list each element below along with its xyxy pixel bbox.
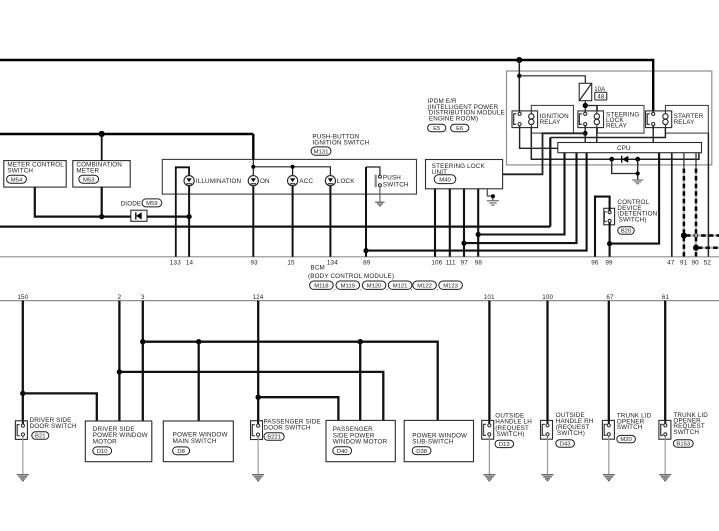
wire: diode to lamp line [147, 216, 189, 218]
ground (passenger door switch) [257, 440, 259, 475]
relay U2 steering lock relay symbol [578, 111, 639, 130]
wire: pin 124 to passenger door switch [257, 301, 259, 425]
svg-text:96: 96 [591, 259, 599, 266]
ground (CPU) [632, 180, 643, 184]
combination meter M53 box [73, 161, 130, 188]
svg-text:D43: D43 [560, 442, 572, 448]
wire: CPU feed to detention switch [610, 153, 660, 244]
svg-text:M20: M20 [620, 437, 632, 443]
connector M123 [439, 281, 463, 289]
outside handle LH request switch D13 [482, 413, 533, 448]
wire: interior bus riser [549, 138, 551, 227]
push-button ignition switch M131 box [162, 159, 416, 194]
lamp LOCK [325, 176, 355, 186]
wire: illumination lamp to pin 14 [188, 186, 190, 257]
junction pin 98 branch [476, 232, 481, 237]
wire: pin 61 to trunk lid request switch [664, 301, 666, 424]
wire: ignition relay contact to CPU [520, 126, 558, 149]
wire: pin 100 to outside handle RH [546, 301, 548, 424]
BCM pin labels top row [170, 259, 711, 266]
relay U3 starter relay symbol [646, 111, 704, 128]
power window main switch D8 box [163, 421, 233, 462]
junction pin 2 branch [117, 369, 122, 374]
wire: steering lock unit pin 106 [434, 189, 436, 257]
wire: steering lock unit pin 97 [463, 189, 465, 257]
trunk lid opener switch M20 [602, 413, 651, 444]
svg-text:B221: B221 [267, 435, 281, 441]
junction pin 124 branch [256, 395, 261, 400]
svg-text:METER: METER [76, 168, 99, 175]
push switch symbol [375, 175, 409, 189]
svg-text:,: , [437, 285, 439, 292]
svg-text:DOOR SWITCH: DOOR SWITCH [264, 425, 311, 432]
svg-text:124: 124 [253, 294, 264, 301]
wire: pin 67 to trunk lid opener switch [608, 301, 610, 424]
starter relay label box [665, 105, 708, 133]
svg-text:M40: M40 [439, 178, 451, 184]
outside handle RH request switch D43 [541, 412, 594, 448]
svg-text:SWITCH): SWITCH) [557, 430, 585, 437]
wire: meter feed bus [0, 133, 253, 135]
BCM module band (bottom edge) [0, 300, 719, 302]
svg-text:M119: M119 [341, 284, 355, 290]
svg-text:BCM: BCM [311, 265, 325, 272]
fuse 10A 48 [579, 83, 607, 100]
svg-text:93: 93 [251, 259, 259, 266]
ground (trunk lid request switch) [664, 439, 666, 475]
wire: combination meter down to diode line [101, 187, 103, 217]
svg-text:DOOR SWITCH: DOOR SWITCH [30, 423, 77, 430]
steering lock relay label box [597, 105, 644, 133]
wire: pin 124 branch to passenger motor [258, 397, 338, 420]
svg-text:M122: M122 [417, 284, 432, 290]
svg-text:47: 47 [667, 259, 675, 266]
steering lock unit M40 box [426, 160, 503, 189]
ground (steering lock unit) [487, 201, 499, 206]
wire: steering lock unit pin 98 [477, 189, 479, 257]
svg-text:SWITCH): SWITCH) [619, 217, 647, 224]
svg-text:134: 134 [327, 259, 338, 266]
wire: ACC lamp to pin 15 [292, 186, 294, 257]
IPDM label text [428, 98, 505, 123]
svg-text:SWITCH: SWITCH [383, 182, 409, 189]
driver side door switch B21 [15, 417, 77, 440]
lamp ON [248, 176, 270, 186]
wire: detention switch to pin 99 [609, 222, 611, 257]
svg-text:D40: D40 [337, 449, 349, 455]
wire: drop to passenger motor [359, 342, 361, 421]
wire: branch to driver window motor [23, 393, 97, 421]
wire: pin 101 to outside handle LH [488, 301, 490, 424]
wire: steering relay coil to CPU [596, 128, 598, 143]
wire: M54 to diode [35, 187, 131, 217]
junction pin 91 branch [681, 233, 687, 239]
svg-text:(BODY CONTROL MODULE): (BODY CONTROL MODULE) [308, 273, 394, 280]
junction pin 3 branch [140, 339, 145, 344]
svg-text:D38: D38 [416, 449, 428, 455]
svg-text:SWITCH: SWITCH [617, 424, 643, 431]
wire: pin 98 branch to CPU [478, 153, 564, 235]
wire: pin 91 shielded branch right [684, 234, 719, 236]
lamp ACC [288, 176, 314, 186]
svg-text:,: , [334, 285, 336, 292]
svg-text:99: 99 [605, 259, 613, 266]
junction node fuse branch [517, 74, 521, 78]
wire: illumination lamp to pin 133 [176, 167, 189, 256]
junction diode cathode [635, 157, 640, 162]
junction main switch drop [196, 339, 201, 344]
svg-text:M120: M120 [367, 284, 382, 290]
svg-text:48: 48 [597, 94, 604, 101]
ground (push switch) [375, 202, 384, 206]
wire: thick riser to ON lamp [252, 134, 254, 159]
wire: fuse output [584, 101, 586, 113]
svg-text:D13: D13 [499, 442, 511, 448]
wire: combination meter riser up [101, 134, 103, 161]
wire: branch to steering lock relay coil [585, 106, 597, 111]
passenger side door switch B221 [251, 419, 321, 441]
connector M118 [310, 281, 334, 289]
svg-text:150: 150 [17, 294, 28, 301]
junction node on power bus [516, 57, 522, 63]
wire: ignition relay coil to diode line [531, 128, 699, 160]
svg-text:ILLUMINATION: ILLUMINATION [196, 178, 242, 185]
junction inner bus ON [251, 165, 255, 169]
svg-text:133: 133 [170, 259, 181, 266]
ground (driver door switch) [22, 439, 24, 474]
junction combination meter [99, 131, 105, 137]
wire: push switch to ground [379, 187, 381, 202]
svg-text:MAIN SWITCH: MAIN SWITCH [173, 438, 217, 445]
BCM module band (top edge) [0, 256, 719, 258]
junction node fuse output [583, 103, 588, 108]
svg-text:B21: B21 [35, 434, 45, 440]
svg-text:M118: M118 [314, 284, 329, 290]
svg-text:ENGINE ROOM): ENGINE ROOM) [429, 116, 478, 123]
svg-text:101: 101 [484, 294, 495, 301]
svg-text:RELAY: RELAY [674, 119, 696, 126]
svg-text:WINDOW MOTOR: WINDOW MOTOR [333, 439, 388, 446]
ground (outside handle RH) [547, 439, 549, 475]
svg-text:LOCK: LOCK [337, 178, 355, 185]
driver side power window motor D10 box [85, 421, 152, 462]
wire: CPU to pin 47 [671, 153, 673, 257]
svg-text:ACC: ACC [299, 178, 313, 185]
svg-text:61: 61 [662, 294, 670, 301]
svg-text:90: 90 [692, 259, 700, 266]
connector M119 [336, 281, 360, 289]
svg-text:,: , [360, 285, 362, 292]
wire: pin 3 to driver window motor [142, 301, 144, 421]
junction on pin 14 line [187, 214, 192, 219]
junction on diode line [99, 214, 104, 219]
svg-text:,: , [386, 285, 388, 292]
svg-text:106: 106 [431, 259, 442, 266]
svg-text:97: 97 [461, 259, 469, 266]
BCM label [308, 265, 394, 280]
svg-text:M53: M53 [83, 177, 95, 183]
svg-text:CPU: CPU [617, 145, 631, 152]
junction passenger motor drop [358, 339, 363, 344]
svg-text:M54: M54 [11, 177, 23, 183]
svg-text:52: 52 [704, 259, 712, 266]
svg-text:,: , [411, 285, 413, 292]
junction inner bus ACC [291, 165, 295, 169]
svg-text:M59: M59 [146, 201, 157, 207]
trunk lid opener request switch B153 [659, 412, 708, 448]
svg-text:ON: ON [260, 178, 270, 185]
svg-text:D8: D8 [177, 449, 185, 455]
svg-text:15: 15 [287, 259, 295, 266]
svg-text:E6: E6 [456, 126, 464, 132]
power window sub-switch D38 box [404, 420, 473, 461]
svg-text:100: 100 [542, 294, 553, 301]
connector E5 [428, 124, 446, 132]
junction pin 97 branch [461, 241, 466, 246]
wire: pin 2 to driver window motor [118, 301, 120, 421]
svg-text:M131: M131 [314, 149, 329, 155]
wire: push switch to pin 89 [366, 167, 380, 175]
connector M122 [413, 281, 437, 289]
wire: ON lamp to pin 93 [252, 186, 254, 257]
wire: pin 89 branch to CPU [366, 153, 587, 251]
junction pin 99 [607, 241, 612, 246]
wire: steering lock unit pin 111 [449, 189, 451, 257]
svg-text:D10: D10 [97, 449, 109, 455]
wire: pin 150 to driver door switch [22, 301, 24, 425]
junction pin 90 branch [693, 245, 699, 251]
svg-text:SWITCH): SWITCH) [497, 431, 525, 438]
wire: starter relay coil feed from interior bus [550, 128, 665, 138]
BCM pin labels bottom row [17, 294, 669, 301]
wire: inner lamp bus [253, 167, 330, 176]
wire: CPU to pin 91 shielded [683, 153, 685, 257]
wire: LOCK lamp to pin 134 [329, 186, 331, 257]
svg-text:B153: B153 [676, 442, 690, 448]
svg-text:89: 89 [363, 259, 371, 266]
lamp ILLUMINATION [184, 176, 242, 186]
junction pin 150 branch [20, 391, 25, 396]
relay U1 ignition relay symbol [512, 111, 569, 128]
wire: pin 2 branch to passenger motor [119, 372, 383, 421]
wire: battery power bus top [0, 60, 653, 112]
svg-text:98: 98 [475, 259, 483, 266]
svg-text:PUSH: PUSH [383, 175, 401, 182]
svg-text:RELAY: RELAY [606, 123, 628, 130]
svg-text:67: 67 [606, 294, 614, 301]
passenger side power window motor D40 box [326, 420, 395, 461]
svg-text:SWITCH: SWITCH [673, 429, 699, 436]
svg-text:IGNITION SWITCH: IGNITION SWITCH [312, 140, 369, 147]
wire: CPU to pin 90 shielded [695, 153, 697, 257]
wire: pin 3 distribution bus [143, 342, 438, 421]
wire: full width interior bus [0, 226, 550, 228]
wire: branch to fuse 48 [519, 76, 585, 84]
junction ground stem [491, 194, 495, 198]
IPDM E/R module outline box [507, 71, 712, 165]
svg-text:M121: M121 [393, 284, 408, 290]
svg-text:91: 91 [680, 259, 688, 266]
wire: steering relay contact pin with junction [584, 126, 586, 143]
svg-text:SUB-SWITCH: SUB-SWITCH [412, 439, 454, 446]
svg-text:DIODE: DIODE [121, 200, 142, 207]
wire: starter relay contact to CPU [652, 126, 654, 143]
wire: detention switch to pin 96 [595, 197, 610, 257]
svg-text:SWITCH: SWITCH [7, 168, 33, 175]
svg-text:14: 14 [186, 259, 194, 266]
ground (outside handle LH) [488, 439, 490, 475]
junction on pin 89 line [363, 248, 368, 253]
diode M59 [121, 199, 162, 221]
connector M121 [388, 281, 412, 289]
connector M120 [362, 281, 386, 289]
connector E6 [451, 124, 469, 132]
svg-text:111: 111 [446, 259, 456, 266]
svg-text:2: 2 [118, 294, 122, 301]
junction ground node [636, 171, 640, 175]
wire: pin 97 branch to CPU [464, 153, 577, 243]
svg-text:3: 3 [141, 294, 145, 301]
svg-text:B20: B20 [621, 229, 632, 235]
control device detention switch B20 [604, 199, 658, 235]
wire: pin 90 shielded branch right [696, 246, 719, 248]
wire: ignition relay contact feed [518, 60, 520, 112]
diode inside CPU circuit [622, 156, 629, 163]
svg-text:M123: M123 [443, 284, 458, 290]
wire: drop to main switch [198, 342, 200, 421]
junction diode anode [609, 157, 614, 162]
svg-text:RELAY: RELAY [540, 119, 562, 126]
svg-text:MOTOR: MOTOR [93, 438, 117, 445]
CPU box [558, 143, 702, 153]
wire: steering lock unit ground stem [487, 189, 493, 201]
meter control switch M54 box [4, 161, 66, 188]
wire: starter relay box to pin 52 [707, 133, 709, 257]
wire: ground loop below diode [612, 159, 638, 179]
wire: steering relay contact to steering lock unit [503, 133, 586, 174]
svg-text:E5: E5 [433, 126, 441, 132]
push-button ignition switch header [311, 134, 369, 156]
ground (trunk lid opener switch) [608, 439, 610, 475]
ignition relay label box [531, 105, 573, 133]
